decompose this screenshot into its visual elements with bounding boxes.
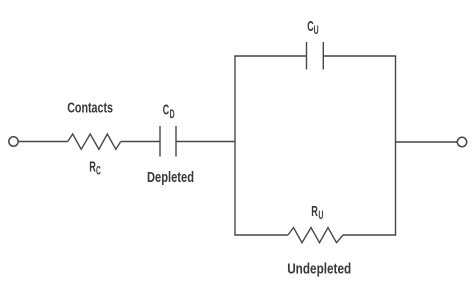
svg-text:Contacts: Contacts <box>67 101 113 117</box>
wire: resistor RC to capacitor CD <box>121 141 160 143</box>
wire: left vertical branch (node A) <box>234 56 236 235</box>
svg-text:D: D <box>170 109 175 121</box>
wire: top branch left segment to CU <box>234 55 306 57</box>
wire: bottom branch left segment to RU <box>234 234 288 236</box>
wire: capacitor CD to node A <box>176 141 235 143</box>
wire: RU to bottom-right corner <box>343 234 396 236</box>
wire: output from right vertical to T2 <box>396 141 458 143</box>
svg-text:U: U <box>314 25 319 37</box>
label RC reference designator <box>89 159 101 178</box>
label RU reference designator <box>311 203 323 222</box>
label CU reference designator <box>307 18 318 37</box>
svg-text:C: C <box>163 102 169 119</box>
svg-text:R: R <box>311 203 318 220</box>
capacitor CU left plate <box>306 42 308 70</box>
terminal T1 (left input) <box>9 137 18 146</box>
svg-text:U: U <box>318 210 323 222</box>
svg-text:Undepleted: Undepleted <box>287 262 351 278</box>
resistor RC <box>68 134 121 149</box>
wire: T1 to resistor RC <box>19 141 68 143</box>
svg-text:Depleted: Depleted <box>147 170 194 186</box>
svg-text:C: C <box>96 166 101 178</box>
wire: top branch right segment from CU <box>323 55 396 57</box>
svg-text:R: R <box>89 159 96 176</box>
terminal T2 (right output) <box>457 137 466 146</box>
label CD reference designator <box>163 102 175 121</box>
resistor RU <box>288 228 343 243</box>
wire: right vertical branch <box>395 56 397 235</box>
capacitor CD left plate <box>159 126 161 157</box>
capacitor CU right plate <box>322 42 324 70</box>
capacitor CD right plate <box>175 126 177 157</box>
